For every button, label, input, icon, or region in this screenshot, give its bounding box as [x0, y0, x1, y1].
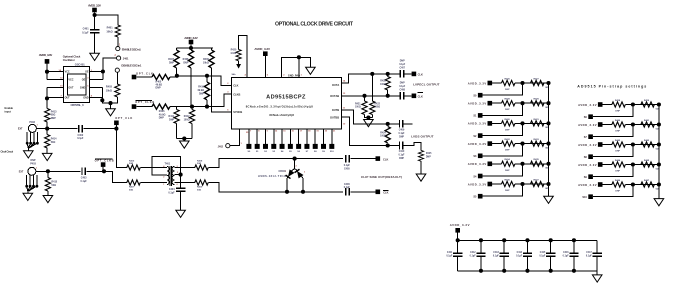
resistor R425 DNP	[418, 150, 423, 161]
svg-text:T401: T401	[164, 162, 170, 165]
svg-text:1: 1	[119, 44, 121, 46]
wire OE pins	[90, 58, 117, 79]
pin DISABLE	[115, 68, 119, 72]
svg-text:14: 14	[343, 80, 346, 83]
svg-text:R428: R428	[505, 98, 511, 101]
junction	[549, 269, 553, 273]
svg-text:2: 2	[227, 83, 229, 85]
ground	[306, 67, 316, 74]
svg-text:CLK: CLK	[383, 191, 388, 195]
wire	[94, 33, 96, 53]
wire down to transformer	[116, 129, 126, 168]
wire	[95, 15, 118, 25]
power stub	[189, 40, 194, 45]
resistor R443 0	[641, 142, 654, 147]
ground	[42, 153, 52, 160]
junction	[657, 102, 661, 106]
svg-text:0.1µF: 0.1µF	[399, 154, 406, 156]
svg-text:1: 1	[37, 124, 39, 126]
svg-text:S6: S6	[584, 116, 588, 119]
strap stub S8	[593, 145, 633, 157]
power stub	[132, 75, 137, 80]
junction	[479, 269, 483, 273]
power stub	[598, 122, 603, 127]
svg-text:0.1µF: 0.1µF	[563, 256, 570, 258]
shield pin	[36, 185, 39, 188]
node	[520, 81, 524, 85]
svg-text:5: 5	[87, 86, 89, 88]
ground	[180, 141, 190, 148]
shield pin	[26, 142, 29, 145]
svg-text:CLK: CLK	[233, 84, 238, 88]
capacitor C407 (OUTA ac)	[388, 73, 401, 75]
svg-text:100Ω: 100Ω	[374, 107, 380, 109]
net stub CLK (lvpecl)	[412, 72, 417, 77]
node	[520, 182, 524, 186]
svg-text:S3: S3	[473, 155, 477, 158]
svg-text:S10: S10	[330, 151, 335, 153]
wire	[117, 37, 119, 47]
ground	[596, 271, 598, 275]
svg-text:R423: R423	[380, 80, 386, 83]
svg-text:VCC: VCC	[68, 79, 73, 82]
wire	[515, 143, 549, 145]
wire	[351, 191, 376, 193]
svg-text:C414: C414	[517, 251, 523, 254]
junction	[657, 162, 661, 166]
svg-text:9: 9	[267, 131, 269, 133]
shield pin	[36, 142, 39, 145]
svg-text:5: 5	[267, 75, 269, 77]
node	[386, 72, 390, 76]
resistor R424 100 (across B pair)	[385, 127, 390, 143]
wire GND pins	[90, 88, 111, 104]
svg-text:LVDS OUTPUT: LVDS OUTPUT	[411, 134, 433, 138]
svg-text:S8: S8	[584, 156, 588, 159]
pin SYNC jumper J402	[230, 129, 240, 146]
svg-text:100Ω: 100Ω	[380, 84, 386, 86]
svg-text:LVPECL OUTPUT: LVPECL OUTPUT	[413, 82, 439, 86]
wire	[515, 163, 549, 165]
SMA shield pins	[27, 175, 37, 194]
svg-text:R424: R424	[380, 131, 386, 134]
svg-text:10: 10	[343, 123, 346, 125]
capacitor C408 (OUTAB ac)	[388, 95, 401, 97]
resistor R432 DNP	[502, 141, 515, 146]
svg-text:0.1µF: 0.1µF	[82, 31, 89, 34]
ground	[544, 196, 554, 203]
svg-text:15: 15	[283, 131, 286, 133]
junction	[572, 269, 576, 273]
svg-text:R425: R425	[426, 152, 432, 155]
svg-text:13: 13	[343, 93, 346, 95]
svg-text:DNP: DNP	[615, 111, 620, 113]
svg-text:AVDD_3.3V: AVDD_3.3V	[578, 163, 597, 167]
svg-text:S3: S3	[272, 151, 275, 153]
node	[520, 162, 524, 166]
pin RSET loop resistor R420	[239, 36, 248, 78]
wire OUTA	[341, 74, 387, 83]
power stub	[598, 162, 603, 167]
svg-text:R446: R446	[615, 179, 621, 182]
strap terminal S4	[281, 129, 283, 144]
svg-text:DNP: DNP	[169, 62, 174, 65]
svg-text:S9: S9	[584, 176, 588, 179]
svg-text:R440: R440	[615, 119, 621, 122]
svg-text:8: 8	[258, 131, 260, 133]
svg-text:1: 1	[163, 184, 165, 186]
svg-text:R434: R434	[505, 158, 511, 161]
junction	[546, 121, 550, 125]
wire GND_PAD rail	[282, 57, 311, 77]
svg-text:OUT: OUT	[65, 96, 71, 99]
strap stub S4	[483, 164, 523, 176]
svg-text:2: 2	[115, 55, 117, 57]
svg-text:R432: R432	[505, 138, 511, 141]
svg-text:7: 7	[250, 131, 252, 133]
svg-text:S5: S5	[473, 196, 477, 199]
junction	[546, 162, 550, 166]
svg-text:C409: C409	[399, 128, 405, 131]
junction	[502, 269, 506, 273]
wire VCC feed	[47, 64, 64, 80]
svg-text:AVDD_3.3V: AVDD_3.3V	[88, 4, 101, 8]
svg-text:0.1µF: 0.1µF	[516, 256, 523, 258]
svg-text:DISABLE OSC-in1: DISABLE OSC-in1	[121, 63, 141, 67]
svg-text:1: 1	[301, 75, 303, 77]
svg-text:R422: R422	[374, 103, 380, 106]
resistor R435 0	[531, 161, 544, 166]
resistor R429 0	[531, 101, 544, 106]
svg-text:19: 19	[316, 131, 319, 133]
wire	[116, 72, 118, 84]
resistor R417 50 (primary bottom)	[127, 180, 140, 185]
svg-text:C407: C407	[399, 67, 405, 70]
svg-text:R436: R436	[505, 178, 511, 181]
net stub CLK	[376, 156, 381, 161]
wire	[112, 97, 117, 103]
strap terminal S9	[323, 129, 325, 144]
wire OUTB	[341, 110, 399, 124]
shield pin	[32, 185, 35, 188]
svg-text:AVDD_3.3V: AVDD_3.3V	[578, 103, 597, 107]
svg-text:DNP: DNP	[615, 131, 620, 133]
svg-text:OUTB: OUTB	[332, 108, 339, 112]
ground	[654, 199, 664, 206]
node	[366, 115, 370, 119]
svg-text:DNP: DNP	[159, 117, 164, 120]
svg-text:0.1µF: 0.1µF	[81, 180, 88, 183]
wire strap rail left	[548, 83, 550, 196]
wire input line	[36, 128, 78, 130]
capacitor C413 0.1uF	[503, 240, 505, 270]
svg-text:R441: R441	[644, 119, 650, 122]
svg-text:EXT: EXT	[19, 170, 24, 173]
pin	[226, 144, 230, 148]
node	[45, 127, 49, 131]
svg-text:2: 2	[296, 166, 298, 168]
junction	[657, 182, 661, 186]
svg-text:OE: OE	[85, 71, 89, 74]
svg-text:17: 17	[300, 131, 303, 133]
resistor R406 49.9 DNP	[152, 104, 170, 109]
resistor R418 50 (secondary top)	[174, 167, 195, 169]
svg-text:C411: C411	[447, 251, 453, 254]
resistor R430 DNP	[502, 121, 515, 126]
svg-text:DNP: DNP	[51, 117, 56, 120]
svg-text:0Ω: 0Ω	[656, 148, 659, 150]
resistor R446 DNP	[612, 182, 625, 187]
svg-text:C412: C412	[470, 251, 476, 254]
svg-text:S0: S0	[248, 151, 251, 153]
svg-text:0.1µF: 0.1µF	[77, 137, 84, 140]
resistor R401 10k	[115, 25, 120, 37]
wire	[136, 76, 152, 78]
node	[631, 162, 635, 166]
wire OUTAB	[341, 95, 387, 97]
svg-text:S1: S1	[473, 115, 477, 118]
junction	[657, 142, 661, 146]
svg-text:AVDD_3.3V: AVDD_3.3V	[184, 36, 198, 40]
wire	[625, 164, 659, 166]
svg-text:C416: C416	[563, 251, 569, 254]
capacitor C415 0.1uF	[550, 240, 552, 270]
resistor R407 DNP	[174, 50, 179, 68]
svg-text:R401: R401	[107, 27, 114, 30]
svg-text:0.1µF: 0.1µF	[168, 191, 175, 194]
svg-text:10kΩ: 10kΩ	[203, 62, 209, 65]
node	[362, 94, 366, 98]
power stub	[488, 101, 493, 106]
resistor R422 100 (OUTA term)	[371, 74, 373, 101]
svg-text:0Ω: 0Ω	[545, 127, 548, 129]
svg-text:GND: GND	[83, 96, 89, 99]
capacitor C417 0.1uF	[596, 240, 598, 270]
svg-text:18: 18	[308, 131, 311, 133]
node	[100, 98, 104, 102]
junction	[546, 142, 550, 146]
node	[520, 142, 524, 146]
svg-text:OPT_CLK: OPT_CLK	[136, 71, 153, 75]
svg-text:AVDD_3.3V: AVDD_3.3V	[468, 122, 487, 126]
svg-text:AVDD_3.3V: AVDD_3.3V	[578, 143, 597, 147]
node	[520, 101, 524, 105]
power stub	[488, 81, 493, 86]
svg-text:R427: R427	[534, 77, 540, 80]
svg-text:DNP: DNP	[399, 158, 404, 160]
resistor R403 10k	[115, 84, 120, 97]
node	[631, 102, 635, 106]
wire	[180, 191, 182, 210]
svg-text:0Ω: 0Ω	[545, 168, 548, 170]
resistor R421 100 (OUTAB term)	[364, 96, 366, 101]
svg-text:R416: R416	[129, 159, 135, 162]
resistor R410 49.9 DNP (across rails)	[206, 76, 208, 107]
ground	[43, 196, 53, 203]
svg-text:DNP: DNP	[156, 87, 161, 90]
svg-text:DNP: DNP	[426, 156, 431, 158]
junction	[182, 136, 186, 140]
svg-text:HSMS-2812-TR1G: HSMS-2812-TR1G	[258, 175, 286, 178]
svg-text:2: 2	[163, 177, 165, 179]
node	[297, 55, 301, 59]
capacitor C410 (OUTBB ac)	[400, 142, 403, 150]
node	[45, 96, 49, 100]
wire	[84, 128, 117, 130]
resistor R416 50 (primary top)	[127, 165, 140, 170]
svg-text:CLK: CLK	[383, 157, 388, 161]
strap stub S3	[483, 144, 523, 156]
resistor R442 DNP	[612, 142, 625, 147]
power stub	[598, 142, 603, 147]
svg-text:P403: P403	[30, 163, 36, 166]
svg-text:S7: S7	[306, 151, 309, 153]
node	[189, 46, 193, 50]
svg-text:0.1µF: 0.1µF	[446, 256, 453, 258]
node	[114, 127, 118, 131]
svg-text:S4b: S4b	[232, 73, 237, 76]
svg-text:S10: S10	[582, 196, 587, 199]
svg-text:C413: C413	[493, 251, 499, 254]
svg-text:1: 1	[285, 171, 287, 173]
svg-text:OUTA: OUTA	[332, 83, 339, 87]
svg-text:AVDD_3.3V: AVDD_3.3V	[468, 142, 487, 146]
svg-text:R435: R435	[534, 158, 540, 161]
svg-text:DNP: DNP	[615, 191, 620, 193]
capacitor C416 0.1uF	[573, 240, 575, 270]
svg-text:CRYSTAL_3: CRYSTAL_3	[71, 103, 84, 107]
wire	[170, 76, 177, 78]
strap stub S7	[593, 125, 633, 137]
junction	[205, 74, 209, 78]
svg-text:S2: S2	[264, 151, 267, 153]
capacitor C402 (series)	[79, 125, 82, 133]
svg-text:Enable: Enable	[5, 106, 14, 110]
svg-text:0.1µF: 0.1µF	[493, 256, 500, 258]
svg-text:CLIP SINE OUT(DEFAULT): CLIP SINE OUT(DEFAULT)	[361, 175, 402, 179]
svg-text:C408: C408	[399, 88, 405, 91]
svg-text:DNP: DNP	[199, 92, 204, 95]
capacitor C405 (clip top)	[346, 155, 349, 163]
svg-text:4: 4	[245, 74, 247, 77]
resistor R436 DNP	[502, 181, 515, 186]
svg-text:R443: R443	[644, 139, 650, 142]
wire	[515, 183, 549, 185]
svg-text:DNP: DNP	[183, 62, 188, 65]
svg-text:R445: R445	[644, 159, 650, 162]
wire	[515, 82, 549, 84]
svg-text:Oscillator: Oscillator	[63, 58, 76, 62]
ground	[24, 151, 34, 158]
junction	[549, 238, 553, 242]
svg-text:AVDD_3.3V: AVDD_3.3V	[450, 223, 470, 227]
wire clip-sine top line	[208, 159, 343, 168]
power stub	[45, 59, 50, 64]
svg-text:AVDD_3.3V: AVDD_3.3V	[468, 81, 487, 85]
resistor R413 50 DNP (to oscillator)	[46, 98, 48, 128]
junction	[479, 238, 483, 242]
svg-text:OUT: OUT	[68, 87, 74, 90]
resistor R441 0	[641, 122, 654, 127]
svg-text:3: 3	[227, 92, 229, 94]
power stub	[598, 102, 603, 107]
node	[293, 157, 297, 161]
wire R408 to CLKB rail	[190, 68, 192, 107]
wire join to ground	[177, 139, 192, 142]
resistor R444 DNP	[612, 162, 625, 167]
svg-text:0Ω: 0Ω	[656, 128, 659, 130]
wire bypass rails	[458, 240, 598, 270]
wire	[94, 12, 96, 29]
svg-text:R447: R447	[644, 179, 650, 182]
svg-text:C410: C410	[399, 150, 405, 153]
node	[386, 94, 390, 98]
svg-text:0Ω: 0Ω	[656, 168, 659, 170]
svg-text:AVDD_3.3V: AVDD_3.3V	[578, 123, 597, 127]
svg-text:0.1µF: 0.1µF	[539, 256, 546, 258]
wire bias rail	[177, 44, 214, 50]
wire	[170, 106, 177, 108]
svg-text:DNP: DNP	[400, 61, 405, 63]
svg-text:SYNCB: SYNCB	[233, 110, 242, 114]
wire CLK rail	[177, 68, 232, 85]
svg-text:AVDD_3.3V: AVDD_3.3V	[39, 53, 53, 57]
svg-text:CLKB: CLKB	[233, 92, 240, 96]
svg-text:21: 21	[333, 131, 336, 133]
svg-text:DNP: DNP	[615, 151, 620, 153]
svg-text:R419: R419	[197, 186, 203, 189]
svg-text:0.1µF: 0.1µF	[586, 256, 593, 258]
junction	[190, 105, 194, 109]
svg-text:R426: R426	[505, 77, 511, 80]
power stub	[114, 121, 119, 126]
svg-text:R418: R418	[197, 159, 203, 162]
svg-text:AVDD_3.3V: AVDD_3.3V	[468, 102, 487, 106]
node	[370, 72, 374, 76]
svg-text:R429: R429	[534, 98, 540, 101]
wire	[87, 170, 104, 172]
ground	[106, 109, 116, 116]
svg-text:Clock Circuit: Clock Circuit	[1, 150, 14, 153]
junction	[456, 238, 460, 242]
svg-text:S4: S4	[281, 150, 284, 153]
strap stub S10	[593, 185, 633, 197]
svg-text:C401: C401	[83, 27, 90, 30]
resistor R419 50 (secondary bottom)	[174, 182, 195, 184]
resistor R412 100 (CLKB shunt)	[191, 107, 193, 139]
capacitor C404	[180, 175, 182, 188]
svg-text:OPTIONAL CLOCK DRIVE CIRCUIT: OPTIONAL CLOCK DRIVE CIRCUIT	[275, 22, 354, 28]
svg-text:10kΩ: 10kΩ	[106, 31, 112, 34]
svg-text:R421: R421	[355, 103, 361, 106]
svg-text:EXT: EXT	[18, 127, 23, 130]
svg-text:J401: J401	[123, 57, 129, 61]
node	[631, 122, 635, 126]
svg-text:R438: R438	[615, 99, 621, 102]
svg-text:2: 2	[283, 75, 285, 77]
svg-text:S8: S8	[314, 151, 317, 153]
junction	[546, 81, 550, 85]
svg-text:DNP: DNP	[400, 82, 405, 84]
shield pin	[25, 185, 28, 188]
svg-text:DNP: DNP	[505, 190, 510, 192]
wire center-tap loop	[152, 157, 181, 176]
svg-text:DNP: DNP	[399, 136, 404, 138]
node junction	[93, 13, 97, 17]
svg-text:3: 3	[304, 172, 306, 174]
svg-text:0Ω: 0Ω	[656, 188, 659, 190]
svg-text:S1: S1	[256, 151, 259, 153]
